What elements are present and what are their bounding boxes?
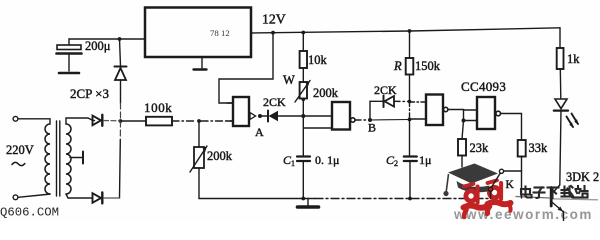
node C1 ground xyxy=(301,197,305,201)
char xia xyxy=(548,188,559,199)
svg-text:150k: 150k xyxy=(415,59,441,73)
gate U1c xyxy=(426,95,448,126)
wire secondary bottom to D3 xyxy=(66,194,92,198)
wire top rail left (cap to 7812 input) xyxy=(69,38,145,40)
ac tilde xyxy=(12,162,25,165)
svg-text:W: W xyxy=(283,73,295,87)
regulator U-7812 box xyxy=(145,8,251,58)
resistor 100k xyxy=(121,117,197,126)
svg-text:200k: 200k xyxy=(313,86,339,100)
node A xyxy=(258,114,262,118)
diode D5 2CK xyxy=(370,96,410,121)
potentiometer W 200k xyxy=(295,81,310,117)
node W junction xyxy=(301,114,305,118)
wire junction to gate2 inputs xyxy=(303,116,332,128)
capacitor 200u filter xyxy=(57,39,82,71)
char zhan xyxy=(575,186,588,198)
svg-text:100k: 100k xyxy=(144,100,172,115)
svg-text:12V: 12V xyxy=(262,12,286,27)
wire secondary top to D2 xyxy=(66,118,95,124)
wire switch node to transistor base xyxy=(521,171,523,198)
resistor 10k xyxy=(300,33,307,83)
wire B to gate3 row xyxy=(370,119,410,122)
wire gray smear right xyxy=(552,199,598,200)
svg-text:200k: 200k xyxy=(207,149,233,163)
char zai xyxy=(562,186,574,198)
node diode/R junction xyxy=(408,100,412,104)
terminal 220V bottom xyxy=(13,195,18,200)
ground (main) xyxy=(298,199,319,208)
gate U1b xyxy=(332,102,367,130)
node feedback tap xyxy=(271,31,275,35)
node rectified bus / 100k junction xyxy=(119,119,123,123)
node B xyxy=(368,118,372,122)
wire primary bottom lead xyxy=(18,194,50,197)
watermark text dianzi xiazaizhan xyxy=(521,186,588,198)
secondary winding xyxy=(66,124,71,194)
switch K xyxy=(488,169,521,198)
svg-text:220V: 220V xyxy=(6,143,34,157)
diode D1 (2CP rectifier to regulator) xyxy=(115,39,127,121)
center tap lead xyxy=(70,157,83,159)
svg-text:23k: 23k xyxy=(470,141,490,155)
wire ground rail xyxy=(199,198,491,200)
node 10k tap xyxy=(301,31,305,35)
char dian xyxy=(521,187,532,198)
svg-text:2: 2 xyxy=(394,159,398,168)
capacitor C1 0.1u xyxy=(297,128,310,199)
svg-text:CC4093: CC4093 xyxy=(461,79,506,94)
svg-text:K: K xyxy=(506,179,515,191)
resistor 33k xyxy=(518,140,526,171)
resistor 23k xyxy=(458,121,466,168)
core xyxy=(56,121,58,196)
svg-text:200μ: 200μ xyxy=(85,39,111,53)
transformer T1 xyxy=(18,119,83,198)
svg-text:78 12: 78 12 xyxy=(210,28,230,38)
svg-text:R: R xyxy=(393,59,402,73)
node gate4 input / 23k tap xyxy=(462,119,466,123)
svg-text:A: A xyxy=(255,125,264,139)
ground (below 200u) xyxy=(59,72,79,75)
watermark bug chongchong 1 xyxy=(464,184,488,217)
led LED1 xyxy=(554,99,579,185)
svg-text:2CK: 2CK xyxy=(374,83,397,97)
svg-text:Q606.COM: Q606.COM xyxy=(0,206,59,220)
svg-text:2CP ×3: 2CP ×3 xyxy=(70,86,109,101)
svg-text:3DK 2: 3DK 2 xyxy=(566,170,599,184)
char zi xyxy=(534,188,545,199)
wire gate4 out to 33k xyxy=(501,114,522,141)
transistor Q1 3DK2 xyxy=(516,185,564,221)
wire gate1 feedback from 12V xyxy=(219,33,273,103)
node W pot bottom xyxy=(302,98,305,101)
gate U1a (4093 schmitt inverter) xyxy=(227,97,256,126)
diode D3 (2CP bottom) xyxy=(93,192,120,203)
gate U1d xyxy=(477,97,501,129)
svg-text:1: 1 xyxy=(291,159,295,168)
resistor 1k xyxy=(557,28,564,98)
wire primary top lead xyxy=(18,119,50,124)
watermark bug chongchong 2 xyxy=(488,180,511,213)
svg-text:1k: 1k xyxy=(567,52,580,66)
wire to gate1 input xyxy=(201,120,233,122)
ground (7812 pin) xyxy=(194,57,207,70)
wire R node to gate3 and C2 xyxy=(410,102,427,157)
wire rectified bus lower xyxy=(119,121,121,140)
potentiometer RP1 200k xyxy=(190,121,207,199)
capacitor C2 1u xyxy=(404,157,417,199)
svg-text:2CK: 2CK xyxy=(263,95,286,109)
primary winding xyxy=(45,124,50,194)
diode D2 (2CP top) xyxy=(93,115,121,126)
node rectifier-output junction on top rail xyxy=(118,37,122,41)
node C2 ground xyxy=(408,197,412,201)
node gate3 input xyxy=(408,118,412,122)
svg-text:10k: 10k xyxy=(308,53,328,67)
terminal 220V top xyxy=(13,116,18,121)
svg-text:33k: 33k xyxy=(529,141,549,155)
svg-text:0. 1μ: 0. 1μ xyxy=(315,153,339,167)
svg-text:B: B xyxy=(368,121,376,135)
node 200k pot tap xyxy=(197,119,201,123)
wire 12V top rail right xyxy=(251,28,560,33)
resistor R 150k xyxy=(406,31,414,102)
diode D4 2CK xyxy=(262,111,301,122)
watermark graduation cap xyxy=(443,164,498,197)
wire gate3 out to gate4 in xyxy=(448,110,477,121)
svg-text:1μ: 1μ xyxy=(419,153,431,167)
node 150k tap xyxy=(408,29,412,33)
